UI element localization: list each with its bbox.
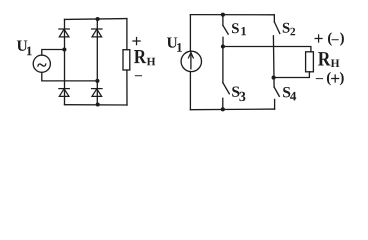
bottom rail wire <box>190 108 274 111</box>
junction dot right branch mid <box>95 79 99 83</box>
label minus-plus (right) rparen <box>340 72 344 85</box>
switch S3 blade <box>223 83 229 94</box>
label plus-minus (right) lparen <box>328 32 332 45</box>
diode VD2 (top right) <box>92 29 102 37</box>
label U1 (right) sub 1 <box>177 43 182 52</box>
label plus (left) <box>132 37 140 45</box>
switch S2/S4 fixed contact vertical <box>272 36 275 87</box>
current source arrow shaft <box>190 53 192 69</box>
switch S4 fixed stub (bottom rail end upturn) <box>274 99 276 109</box>
switch S1 stub <box>222 15 224 26</box>
wire source bottom to right branch <box>42 72 98 81</box>
right branch vertical wire <box>96 19 98 104</box>
label S1 S <box>232 23 239 33</box>
wire source top to left branch <box>42 50 65 56</box>
label S4 S <box>283 87 290 97</box>
switch S2 blade <box>274 22 279 34</box>
AC source U1 circle <box>33 55 50 72</box>
left rail top segment <box>189 15 191 52</box>
switch S1 blade <box>223 25 228 34</box>
label U1 (right) U <box>167 37 177 47</box>
label S3 S <box>232 86 239 96</box>
label S4 sub 4 <box>290 92 296 101</box>
left branch vertical wire <box>64 19 66 104</box>
load branch wire bottom (left circuit) <box>126 70 128 105</box>
label plus-minus (right) rparen <box>340 32 344 45</box>
diode VD3 (bottom left) <box>59 89 69 97</box>
top rail wire <box>65 18 127 21</box>
node b dot <box>272 76 276 80</box>
AC source tilde <box>37 63 46 66</box>
resistor RH (right) <box>306 52 314 72</box>
label S2 S <box>283 23 290 33</box>
label RH (right) R <box>318 52 330 65</box>
node a wire to resistor top <box>223 47 311 52</box>
top rail wire <box>190 14 274 16</box>
switch S1 pivot dot <box>221 13 225 17</box>
switch S4 blade <box>274 87 279 96</box>
label plus-minus (right) minus <box>332 38 339 41</box>
label S1 sub 1 <box>241 27 246 35</box>
diode VD4 (bottom right) <box>92 89 102 97</box>
junction dot bottom rail <box>96 102 100 106</box>
left rail bottom segment <box>189 72 191 110</box>
label minus-plus (right) minus <box>316 77 323 80</box>
label minus-plus (right) lparen <box>327 72 331 85</box>
label plus-minus (right) plus <box>315 34 323 42</box>
switch S3 fixed stub <box>222 98 224 109</box>
label RH (left) R <box>134 50 146 63</box>
label S2 sub 2 <box>290 28 295 36</box>
bottom rail wire <box>65 104 128 106</box>
label minus-plus (right) plus <box>331 74 339 82</box>
junction dot left branch mid <box>62 47 66 51</box>
diode VD1 (top left) <box>59 29 69 37</box>
switch S2 stub (top rail end) <box>273 15 275 22</box>
node b wire to resistor bottom <box>274 72 310 78</box>
label S3 sub 3 <box>239 92 245 101</box>
junction dot top rail <box>96 17 100 21</box>
node a dot <box>221 45 225 49</box>
switch S3 contact dot <box>221 107 225 111</box>
label U1 (left) U <box>17 41 27 51</box>
current source arrow head <box>189 53 194 58</box>
label RH (right) sub H <box>331 59 340 67</box>
switch S3 vertical from node a <box>222 47 224 83</box>
label RH (left) sub H <box>147 58 156 66</box>
label U1 (left) sub 1 <box>27 47 32 56</box>
load branch wire top (left circuit) <box>126 19 128 50</box>
label minus (left) <box>135 74 142 77</box>
switch S1 fixed contact <box>222 37 224 46</box>
current source U1 circle <box>181 51 201 71</box>
resistor RH (left) <box>123 50 130 70</box>
